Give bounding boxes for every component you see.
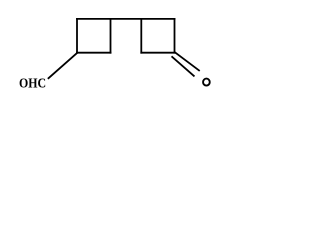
ring: left cyclobutane, bottom edge	[77, 52, 111, 54]
ring: left cyclobutane, left edge	[76, 19, 78, 53]
ring: right cyclobutane, bottom edge	[141, 52, 174, 54]
bond: C=O double bond, upper line	[175, 52, 199, 70]
label: ketone oxygen O	[203, 79, 210, 86]
ring: left cyclobutane, right edge	[110, 19, 112, 53]
ring: right cyclobutane, right edge	[174, 19, 176, 53]
bond: C=O double bond, lower line	[172, 57, 194, 76]
bond: C-CHO aldehyde bond (diagonal)	[49, 53, 78, 78]
chemical structure: 3'-oxo[1,1'-bi(cyclobutane)]-3-carbaldehyde	[0, 0, 235, 111]
ring: right cyclobutane, left edge	[140, 19, 142, 53]
svg-text:OHC: OHC	[19, 75, 46, 91]
wire: horizontal bond line (top edges of both rings + connecting C-C bond)	[77, 18, 175, 20]
